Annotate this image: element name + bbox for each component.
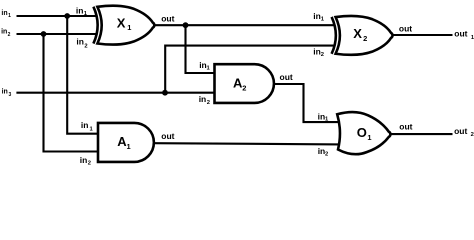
wire in3 rail xyxy=(16,92,214,94)
wire in3 junction up to X2 in2 xyxy=(165,46,335,93)
svg-text:1: 1 xyxy=(321,16,325,22)
and gate A1 xyxy=(98,123,154,162)
xor gate X1 xyxy=(93,6,154,45)
node junction in2 xyxy=(41,31,47,37)
svg-text:2: 2 xyxy=(207,100,210,106)
xor gate X2 xyxy=(332,16,393,55)
svg-text:out: out xyxy=(399,23,412,33)
svg-text:X: X xyxy=(353,26,362,41)
svg-text:out: out xyxy=(399,122,412,132)
svg-text:2: 2 xyxy=(84,44,87,50)
svg-text:2: 2 xyxy=(242,84,246,93)
node junction in3 xyxy=(162,90,168,96)
node junction X1 out xyxy=(183,22,189,28)
svg-text:1: 1 xyxy=(367,133,371,142)
node junction in1 xyxy=(64,13,70,19)
wire X1 out junction down to A2 in1 xyxy=(186,25,216,73)
svg-text:1: 1 xyxy=(127,23,131,32)
svg-text:in: in xyxy=(76,37,84,47)
svg-text:in: in xyxy=(1,29,7,36)
svg-text:in: in xyxy=(1,10,7,17)
wire A2 output to O1 in1 xyxy=(274,84,341,122)
svg-text:2: 2 xyxy=(8,32,11,38)
wire in1 junction down to A1 in1 xyxy=(67,16,99,134)
and gate A2 xyxy=(215,64,274,103)
or gate O1 xyxy=(337,112,390,154)
wire in2 rail xyxy=(17,33,98,35)
svg-text:2: 2 xyxy=(321,52,324,58)
svg-text:2: 2 xyxy=(471,132,474,138)
svg-text:1: 1 xyxy=(90,126,94,132)
wire A1 output to O1 in2 xyxy=(154,143,342,144)
svg-text:in: in xyxy=(199,94,207,104)
svg-text:in: in xyxy=(76,5,84,15)
wire in1 rail xyxy=(17,15,98,17)
svg-text:1: 1 xyxy=(127,142,131,151)
svg-text:2: 2 xyxy=(325,151,328,157)
wire X1 output to X2 in1 xyxy=(154,24,335,26)
svg-text:3: 3 xyxy=(9,92,12,98)
svg-text:O: O xyxy=(357,125,367,140)
wire X2 output xyxy=(392,34,453,36)
svg-text:2: 2 xyxy=(363,34,367,43)
svg-text:1: 1 xyxy=(207,65,211,71)
svg-text:1: 1 xyxy=(8,13,11,19)
svg-text:out: out xyxy=(454,28,467,38)
svg-text:out: out xyxy=(161,14,174,24)
svg-text:out: out xyxy=(454,126,467,136)
svg-text:out: out xyxy=(161,131,174,141)
wire in2 junction down to A1 in2 xyxy=(44,34,100,152)
svg-text:in: in xyxy=(81,120,89,130)
svg-text:2: 2 xyxy=(88,161,91,167)
wire O1 output xyxy=(391,133,453,135)
svg-text:in: in xyxy=(2,89,8,96)
svg-text:out: out xyxy=(280,72,293,82)
svg-text:X: X xyxy=(117,16,126,31)
svg-text:in: in xyxy=(80,155,88,165)
